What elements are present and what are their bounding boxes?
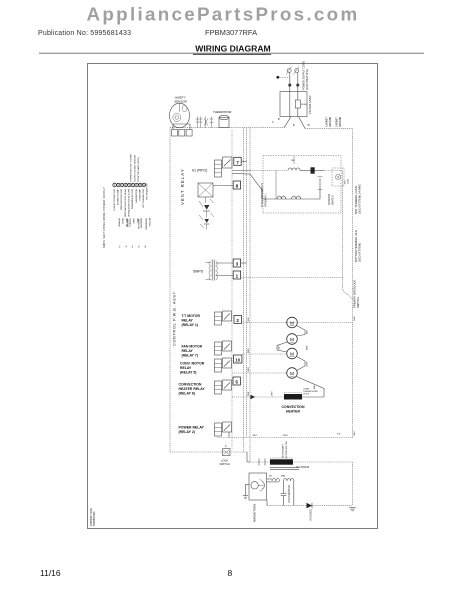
svg-text:H1 (PRY2): H1 (PRY2) — [192, 169, 207, 173]
svg-text:INTERLOCK SW: INTERLOCK SW — [286, 440, 288, 458]
svg-text:(OLD SYSTEM) 14 AWG: (OLD SYSTEM) 14 AWG — [358, 184, 362, 214]
conv motor bus — [232, 372, 287, 374]
neutral bus N — [217, 437, 353, 439]
humidity sensor body — [170, 103, 190, 128]
monitor switch dashed box — [332, 168, 344, 186]
HV right vertical — [352, 462, 354, 506]
svg-text:FAN MOTOR: FAN MOTOR — [182, 344, 203, 348]
svg-text:OVEN LAMP: OVEN LAMP — [139, 188, 142, 201]
svg-text:FUSE: FUSE — [301, 104, 307, 106]
svg-text:(RELAY 2): (RELAY 2) — [179, 430, 195, 434]
line bus L1 — [241, 277, 343, 279]
SMPS output wires — [216, 262, 234, 264]
svg-text:(RELAY 5): (RELAY 5) — [180, 371, 196, 375]
wire left trapezoid leg — [284, 117, 291, 128]
svg-text:1: 1 — [236, 274, 239, 279]
svg-text:RELAY: RELAY — [182, 349, 194, 353]
chassis ground left — [243, 495, 248, 497]
HV primary bus — [250, 461, 353, 463]
svg-text:F.S.: F.S. — [337, 434, 341, 436]
convection heater element — [284, 394, 302, 400]
svg-text:WIRING DIAGRAM: WIRING DIAGRAM — [195, 44, 270, 54]
svg-text:(120V 60HZ 1PH): (120V 60HZ 1PH) — [305, 69, 309, 90]
control board right dashed edge — [231, 130, 233, 450]
svg-text:GRAY: GRAY — [133, 217, 136, 223]
power cord terminal marks — [288, 84, 291, 87]
svg-text:VENT RELAY: VENT RELAY — [180, 168, 185, 205]
wire bus C — [249, 128, 251, 462]
zigzag wire M2-M3 — [277, 342, 288, 352]
svg-text:(TCO): (TCO) — [303, 394, 309, 396]
svg-text:VENTILATOR MOTOR: VENTILATOR MOTOR — [120, 189, 123, 211]
magnetron tube — [251, 482, 258, 489]
secondary interlock switch contacts — [258, 459, 260, 466]
conv motor M3 — [287, 348, 298, 359]
svg-text:5: 5 — [235, 380, 238, 385]
interlock contact ticks — [318, 176, 323, 178]
svg-text:BROWN: BROWN — [128, 219, 130, 227]
svg-text:THERMISTOR: THERMISTOR — [213, 110, 231, 114]
title underline — [193, 53, 271, 55]
svg-text:SWITCH: SWITCH — [356, 297, 360, 308]
connector pin 2 — [234, 315, 241, 323]
primary interlock coil — [288, 168, 300, 171]
power relay symbol — [215, 423, 222, 436]
svg-text:SENSOR: SENSOR — [174, 99, 188, 103]
svg-text:N.O: N.O — [345, 180, 347, 184]
svg-text:BOTTOM TERMINAL OLD: BOTTOM TERMINAL OLD — [354, 230, 358, 262]
svg-text:CABINET: CABINET — [336, 116, 339, 127]
wire bus A — [243, 128, 245, 452]
control board bottom edge — [170, 451, 247, 453]
connector pin 3 — [233, 259, 240, 267]
svg-text:FILTER ASSY: FILTER ASSY — [308, 95, 312, 114]
diagram border frame — [87, 63, 378, 529]
svg-text:PURPLE: PURPLE — [130, 217, 132, 226]
svg-text:MAGNETRON: MAGNETRON — [252, 504, 256, 522]
svg-text:SECONDARY: SECONDARY — [282, 444, 285, 458]
wire right vertical bus — [352, 128, 354, 437]
TT motor relay symbol — [215, 312, 222, 325]
primary interlock feed wire — [250, 170, 288, 172]
connector 3 stub — [241, 262, 247, 264]
svg-text:AppliancePartsPros.com: AppliancePartsPros.com — [87, 3, 360, 24]
power cord lead left — [289, 73, 291, 92]
control board PWB outline top edge — [170, 127, 284, 129]
svg-text:NTC PRM3077RF: NTC PRM3077RF — [147, 182, 149, 200]
svg-text:MAGNETRON: MAGNETRON — [135, 189, 138, 203]
humidity sensor inner detail — [173, 114, 181, 122]
svg-text:HEATER RELAY: HEATER RELAY — [179, 387, 206, 391]
chassis ground right — [349, 506, 356, 508]
svg-text:INTERLOCK SWITCH: INTERLOCK SWITCH — [261, 183, 264, 207]
svg-text:(RELAY 6): (RELAY 6) — [179, 392, 195, 396]
svg-text:CONVECTION MOTOR: CONVECTION MOTOR — [114, 189, 116, 212]
main bus right segment — [305, 127, 353, 129]
power relay drop wire — [228, 432, 230, 438]
svg-text:PRIMARY INTERLOCK: PRIMARY INTERLOCK — [353, 280, 357, 308]
convection heater relay symbol — [215, 381, 222, 394]
svg-text:(PRIMARY): (PRIMARY) — [264, 194, 267, 207]
relay H1 contact — [223, 157, 233, 168]
relay H1 output wires — [232, 170, 250, 172]
magnetron ground wire — [245, 485, 249, 496]
svg-text:PRI: PRI — [291, 160, 295, 162]
svg-text:COOKTOP LAMP (120V): COOKTOP LAMP (120V) — [137, 157, 140, 182]
control board left edge — [169, 128, 171, 452]
svg-text:HEATER: HEATER — [286, 410, 300, 414]
HV bottom bus — [267, 505, 353, 507]
power cord plug prong right — [295, 69, 299, 73]
svg-text:WHT/RED: WHT/RED — [141, 218, 143, 228]
magnetron box — [249, 473, 267, 500]
wire heater right — [302, 396, 324, 398]
turntable motor M1 — [287, 317, 298, 328]
svg-text:RELAY: RELAY — [182, 319, 194, 323]
HV transformer primary winding — [270, 459, 293, 464]
svg-text:BLK: BLK — [306, 329, 308, 334]
svg-text:SMPS: SMPS — [193, 270, 204, 274]
lock switch on board bottom — [223, 449, 231, 456]
connector pin 5 — [233, 377, 240, 385]
HV winding lead — [293, 481, 295, 506]
svg-text:GROUND: GROUND — [330, 116, 332, 127]
svg-text:COVER CLOSED SENSOR: COVER CLOSED SENSOR — [134, 154, 136, 182]
svg-text:CABINET: CABINET — [326, 116, 329, 127]
wire Q1 to connector 8 — [213, 185, 233, 187]
svg-text:RED: RED — [248, 348, 250, 353]
svg-text:RED/WHITE: RED/WHITE — [146, 217, 148, 229]
svg-text:CONTROL P.W.B. ASSY: CONTROL P.W.B. ASSY — [173, 291, 177, 346]
svg-text:FPBM3077RFA: FPBM3077RFA — [89, 508, 93, 526]
svg-text:(RELAY 7): (RELAY 7) — [182, 354, 198, 358]
vent motor M4 — [287, 368, 298, 379]
svg-text:BLUE: BLUE — [123, 217, 125, 223]
svg-text:EXHAUST LAMP: EXHAUST LAMP — [117, 188, 120, 205]
TT motor bus — [241, 322, 352, 324]
svg-text:STIRRER MOTOR / COVER: STIRRER MOTOR / COVER — [131, 154, 133, 182]
interlock coil lower 1 — [277, 196, 286, 199]
svg-text:RELAY: RELAY — [180, 366, 192, 370]
svg-text:(FA): (FA) — [281, 475, 285, 478]
connector pin 10 — [234, 355, 242, 363]
diode D2 — [205, 219, 210, 223]
svg-text:VENTILATOR MOTOR (LOW): VENTILATOR MOTOR (LOW) — [128, 189, 131, 217]
wire right trapezoid leg — [299, 117, 306, 129]
connector pin 8 — [233, 181, 240, 189]
RC network group 2 — [205, 117, 207, 128]
svg-text:BLK: BLK — [253, 435, 258, 437]
svg-text:VENTILATOR MOTOR (HIGH): VENTILATOR MOTOR (HIGH) — [124, 189, 127, 218]
svg-text:CONV. MOTOR: CONV. MOTOR — [180, 361, 205, 365]
noise filter internal wire right — [297, 92, 299, 101]
HV diode D3 — [307, 503, 313, 509]
HV capacitor C1 — [283, 481, 285, 493]
svg-text:WHT: WHT — [278, 344, 280, 350]
HV secondary winding S — [272, 479, 280, 481]
svg-text:Publication No: 5995681433: Publication No: 5995681433 — [38, 30, 131, 37]
svg-text:ORG: ORG — [306, 361, 308, 366]
svg-text:(OLD SYSTEM): (OLD SYSTEM) — [358, 243, 362, 262]
svg-text:TURNTABLE MOTOR: TURNTABLE MOTOR — [131, 189, 134, 210]
svg-text:CONVECTION: CONVECTION — [282, 405, 305, 409]
zigzag wire M3-M4 — [297, 357, 306, 371]
svg-text:3: 3 — [236, 262, 239, 267]
svg-text:SWITCH: SWITCH — [331, 195, 334, 205]
svg-text:FPBM3077RFA: FPBM3077RFA — [205, 28, 257, 37]
noise filter internal wire left — [289, 92, 291, 117]
svg-text:(F): (F) — [269, 476, 272, 478]
heater feed bus with arrow — [232, 396, 284, 398]
svg-text:BLK: BLK — [354, 316, 356, 321]
HV secondary winding F — [284, 479, 295, 481]
svg-text:POWER SUPPLY CORD: POWER SUPPLY CORD — [302, 61, 306, 90]
fan motor M2 — [287, 334, 298, 345]
svg-text:8: 8 — [228, 568, 233, 578]
monitor resistor symbol — [335, 174, 340, 179]
interlock switches dashed box — [263, 156, 341, 214]
connector 7 stub wire — [241, 160, 246, 162]
RC network group 1 — [197, 117, 199, 128]
zener diode Z1 — [204, 205, 210, 210]
svg-text:NTC THERMISTOR: NTC THERMISTOR — [143, 189, 145, 208]
svg-text:ORANGE: ORANGE — [118, 217, 121, 227]
svg-text:RED: RED — [306, 345, 308, 350]
svg-text:T.T MOTOR: T.T MOTOR — [182, 314, 201, 318]
svg-text:POWER RELAY: POWER RELAY — [179, 425, 205, 429]
zigzag wire M1-M2 — [297, 326, 306, 337]
svg-text:WHT: WHT — [354, 430, 356, 436]
connector pin 7 — [234, 157, 241, 165]
relay H1 coil — [215, 160, 222, 177]
svg-text:8: 8 — [236, 184, 239, 189]
svg-text:7: 7 — [236, 160, 239, 165]
svg-text:SKY BLUE: SKY BLUE — [139, 218, 141, 229]
secondary interlock branch wire — [250, 174, 320, 199]
svg-text:(RELAY 1): (RELAY 1) — [182, 323, 198, 327]
svg-text:2: 2 — [236, 318, 239, 323]
ground pin lead — [279, 76, 290, 78]
fuse F1 — [295, 100, 300, 108]
svg-text:10: 10 — [235, 357, 240, 362]
wire M4 to heater — [297, 377, 325, 398]
svg-text:GRY: GRY — [272, 391, 274, 396]
svg-text:COM: COM — [348, 179, 350, 184]
humidity sensor connector blocks — [172, 130, 178, 137]
thermistor body — [219, 118, 229, 128]
svg-text:CONVECTION: CONVECTION — [179, 382, 202, 386]
magnetron filament wires — [267, 478, 273, 480]
power cord lead right — [297, 73, 299, 92]
svg-text:GROUND: GROUND — [340, 116, 342, 127]
transistor Q1 block — [198, 183, 213, 197]
svg-text:WHT: WHT — [283, 435, 289, 437]
svg-text:NOT TERMINAL COLD: NOT TERMINAL COLD — [354, 186, 358, 214]
interlock coil lower 2 — [292, 196, 301, 199]
svg-text:5995681433: 5995681433 — [92, 511, 96, 526]
header rule — [39, 52, 424, 54]
svg-text:SWITCH: SWITCH — [220, 462, 230, 466]
wire board to HV bus — [246, 452, 248, 462]
connector pin 1 — [233, 271, 240, 279]
svg-text:BLK: BLK — [314, 384, 316, 389]
power cord plug prong left — [287, 69, 291, 73]
svg-text:SMPS SWITCHING MODE POWER SUPP: SMPS SWITCHING MODE POWER SUPPLY — [104, 187, 106, 248]
svg-text:2 4 5 6 8: 2 4 5 6 8 — [119, 246, 148, 249]
svg-text:BLK: BLK — [248, 317, 250, 322]
power cord plug slashes — [286, 67, 292, 75]
svg-text:PNK: PNK — [248, 391, 250, 396]
fan motor relay symbol — [215, 342, 222, 355]
svg-text:11/16: 11/16 — [40, 568, 61, 578]
fan motor bus — [242, 353, 287, 355]
noise filter box — [280, 92, 307, 117]
wire interlock to relay vertical — [324, 171, 353, 300]
conv motor relay symbol — [215, 359, 222, 372]
interlock diode D1 — [311, 167, 315, 173]
svg-text:YELLOW: YELLOW — [149, 218, 151, 227]
svg-text:ORG: ORG — [248, 367, 250, 372]
svg-text:H.V.DIODE: H.V.DIODE — [310, 509, 313, 521]
legend key circled terminals — [113, 183, 117, 187]
svg-text:H.V.CAPACITOR: H.V.CAPACITOR — [288, 485, 291, 503]
wire bus B — [246, 128, 248, 438]
ground pin dot — [276, 76, 279, 79]
HV transformer core — [270, 467, 299, 469]
SMPS transformer T1 — [211, 260, 213, 281]
